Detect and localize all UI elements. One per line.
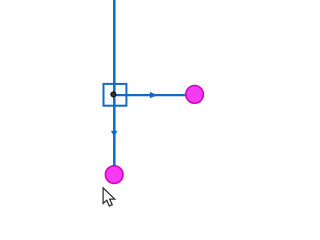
wire vertical main bbox=[113, 0, 116, 167]
junction box (square) bbox=[104, 84, 127, 106]
node junction dot bbox=[111, 92, 116, 97]
arrowhead down bbox=[111, 131, 118, 137]
terminal circle right bbox=[186, 86, 204, 104]
wire horizontal to right terminal bbox=[114, 94, 187, 96]
terminal circle bottom bbox=[105, 166, 123, 184]
arrowhead right bbox=[150, 92, 158, 98]
mouse cursor bbox=[103, 188, 115, 206]
